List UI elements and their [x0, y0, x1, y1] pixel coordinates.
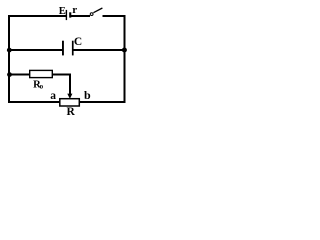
battery E short plate	[69, 12, 71, 17]
wire wiper vertical	[69, 74, 71, 95]
rheostat R box	[60, 99, 80, 106]
svg-text:E: E	[59, 6, 66, 17]
svg-text:b: b	[84, 88, 91, 102]
capacitor C right plate	[72, 41, 74, 56]
wire capacitor row right	[73, 49, 125, 51]
switch pivot circle	[90, 13, 93, 16]
wire bottom-right segment (b to corner)	[80, 101, 126, 103]
wire bottom-left segment	[8, 101, 60, 103]
node junction dot left R0 row	[7, 72, 12, 77]
wire capacitor row left	[8, 49, 63, 51]
wire switch to top-right corner	[103, 15, 126, 17]
battery E long plate	[66, 10, 67, 20]
svg-text:r: r	[72, 4, 77, 16]
wire top-left segment	[8, 15, 67, 17]
wire R0 row left	[8, 74, 30, 76]
svg-text:a: a	[50, 90, 56, 102]
wire R0 to wiper corner	[53, 74, 72, 76]
resistor R0 box	[30, 70, 53, 77]
node junction dot left capacitor row	[7, 48, 12, 53]
wire battery to switch	[71, 15, 90, 17]
rheostat wiper arrowhead	[67, 94, 72, 99]
switch blade	[93, 8, 102, 13]
svg-text:o: o	[40, 82, 44, 90]
svg-text:R: R	[67, 106, 76, 118]
capacitor C left plate	[62, 41, 64, 56]
node junction dot right capacitor row	[122, 48, 127, 53]
wire right edge	[124, 15, 126, 103]
wire left edge	[8, 15, 10, 103]
svg-text:C: C	[74, 36, 82, 48]
